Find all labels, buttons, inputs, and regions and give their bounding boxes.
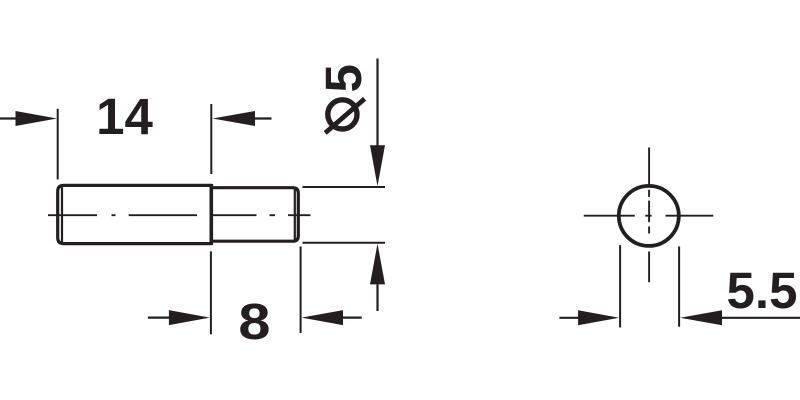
pin body small cylinder <box>211 188 298 242</box>
dimension 14 extension line right <box>210 104 212 174</box>
dimension D5 label: diameter symbol ring <box>328 100 357 129</box>
dimension D5 up arrow <box>370 244 385 285</box>
pin large cylinder chamfer line <box>61 187 63 242</box>
dimension D5 label: diameter symbol slash <box>325 99 364 133</box>
svg-text:14: 14 <box>96 88 153 145</box>
pin centre line <box>48 214 311 216</box>
dimension 8 left arrow <box>148 317 169 319</box>
svg-text:5.5: 5.5 <box>727 262 798 319</box>
pin small cylinder chamfer line <box>294 189 296 240</box>
dimension D5 extension line top <box>303 186 386 188</box>
svg-text:8: 8 <box>238 293 270 350</box>
dimension 5.5 extension line left <box>619 245 621 327</box>
dimension D5 extension line bottom <box>303 242 386 244</box>
dimension 5.5 left arrow <box>559 317 578 319</box>
dimension 8 extension line right <box>300 247 302 334</box>
dimension 14 left arrow <box>0 117 17 119</box>
dimension D5 line and down arrow <box>376 59 378 147</box>
dimension 8 right arrow <box>343 317 362 319</box>
dimension 14 right arrow <box>255 117 272 119</box>
dimension 5.5 right arrow <box>722 317 800 319</box>
end view circle <box>619 186 679 246</box>
end view vertical centre line <box>648 148 650 283</box>
pin body large cylinder <box>58 185 212 243</box>
dimension 5.5 extension line right <box>678 247 680 327</box>
pin step line <box>210 184 214 245</box>
dimension 8 extension line left <box>210 251 212 334</box>
dimension 14 extension line left <box>57 109 59 180</box>
svg-text:5: 5 <box>315 64 372 92</box>
end view horizontal centre line <box>584 215 714 217</box>
